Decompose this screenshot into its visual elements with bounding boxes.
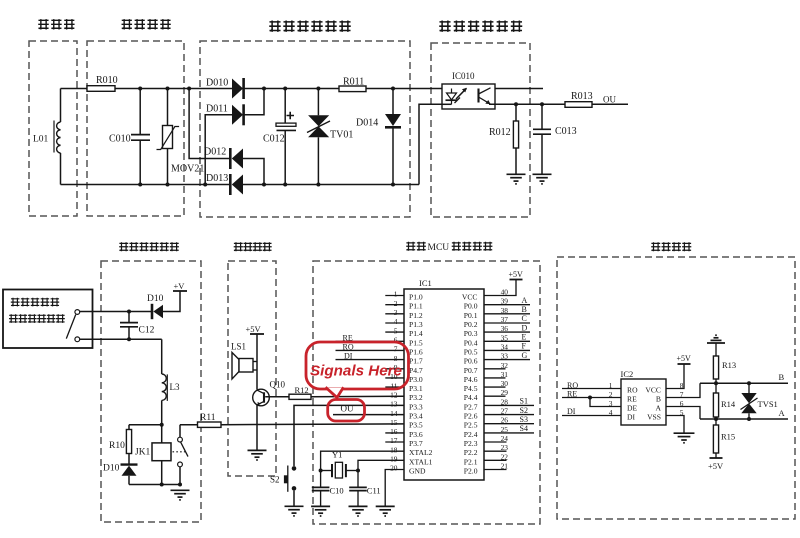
svg-text:P0.1: P0.1 xyxy=(464,311,478,320)
title 处理电路 (of 核心MCU处理电路) xyxy=(452,242,493,251)
svg-text:P2.2: P2.2 xyxy=(464,448,478,457)
relay switch contact xyxy=(178,437,183,442)
relay coil JK1 xyxy=(152,443,171,461)
svg-text:D10: D10 xyxy=(103,464,120,474)
IC1 port letter labels A-G xyxy=(520,296,528,433)
wire MOV21 lower stem xyxy=(167,149,169,185)
svg-text:MOV21: MOV21 xyxy=(171,164,204,175)
IC2 pin name labels xyxy=(627,386,662,422)
IC1 right pin wires xyxy=(484,305,534,470)
wire C010 upper stem xyxy=(139,89,141,135)
wire C11 upper stem xyxy=(357,471,359,488)
TVS1 diagonal tails xyxy=(741,398,758,410)
wire sensor left vertical (lower) xyxy=(60,153,62,185)
svg-text:R15: R15 xyxy=(721,432,735,442)
svg-text:VCC: VCC xyxy=(645,386,661,395)
diode D013 xyxy=(232,175,243,195)
svg-text:Y1: Y1 xyxy=(332,450,342,460)
svg-text:5: 5 xyxy=(394,326,398,335)
svg-text:IC1: IC1 xyxy=(419,278,432,288)
wire ground to R13 xyxy=(715,343,717,356)
svg-text:P0.0: P0.0 xyxy=(464,302,478,311)
optocoupler IC010 body xyxy=(442,84,495,109)
svg-text:+5V: +5V xyxy=(509,270,524,279)
svg-text:Q10: Q10 xyxy=(270,380,286,390)
svg-text:22: 22 xyxy=(501,452,509,461)
svg-text:MCU: MCU xyxy=(428,243,450,253)
wire C12 upper stem xyxy=(128,312,130,323)
wire IC2 pin 2 (RE) xyxy=(562,397,621,399)
wire IC1 pin 19 (XTAL1) xyxy=(358,460,404,470)
wire MOV21 upper stem xyxy=(167,89,169,126)
node bottom bus / TV01 xyxy=(316,183,320,187)
resistor R15 xyxy=(713,425,718,453)
wire IC2 pin 4 (DI) xyxy=(562,415,621,417)
title 光耦隔离电路 xyxy=(439,21,522,32)
resistor R011 xyxy=(339,86,366,92)
svg-text:D10: D10 xyxy=(147,294,164,304)
wire IC1 pin 6 (RE) xyxy=(336,340,405,342)
svg-text:23: 23 xyxy=(501,443,509,452)
capacitor C11 bottom plate xyxy=(349,490,367,492)
svg-text:27: 27 xyxy=(501,407,509,416)
node relay junction xyxy=(160,423,164,427)
svg-text:8: 8 xyxy=(394,354,398,363)
svg-text:C013: C013 xyxy=(555,126,577,137)
diode D10 (points left) xyxy=(151,304,154,319)
wire arrester top contact to D10 xyxy=(80,311,152,313)
wire crystal left xyxy=(321,470,332,472)
wire bottom rail xyxy=(129,484,180,486)
wire IC2 pin 1 (RO) xyxy=(562,388,621,390)
wire L3 to junction xyxy=(161,400,163,424)
wire line B xyxy=(700,382,788,384)
node top bus / TV01 xyxy=(316,87,320,91)
svg-text:P1.7: P1.7 xyxy=(409,357,423,366)
wire C013 upper stem xyxy=(541,104,543,129)
svg-text:C10: C10 xyxy=(330,486,344,496)
title 核心 (of 核心MCU处理电路) xyxy=(406,242,426,251)
svg-text:P1.0: P1.0 xyxy=(409,293,423,302)
wire B to TVS1 xyxy=(748,383,750,393)
C012 plus sign xyxy=(287,112,295,120)
wire R14 to A xyxy=(715,417,717,419)
svg-text:35: 35 xyxy=(501,333,509,342)
node top bus / MOV21 xyxy=(166,87,170,91)
node top bus / D012 branch xyxy=(187,87,191,91)
svg-text:S4: S4 xyxy=(520,424,528,433)
svg-text:P3.4: P3.4 xyxy=(409,412,423,421)
wire switch riser to R11 xyxy=(180,424,198,426)
svg-text:C010: C010 xyxy=(109,134,131,145)
svg-text:DI: DI xyxy=(627,413,635,422)
+5V bar (alarm) xyxy=(250,333,264,335)
svg-text:33: 33 xyxy=(501,352,509,361)
wire IC1 pin 14 (OU) xyxy=(333,414,404,416)
wire IC1 pin 8 (DI) xyxy=(336,359,405,361)
svg-text:20: 20 xyxy=(390,464,398,473)
svg-text:P0.5: P0.5 xyxy=(464,347,478,356)
wire TV01 upper stem xyxy=(317,89,319,116)
svg-text:15: 15 xyxy=(390,418,398,427)
svg-text:37: 37 xyxy=(501,315,509,324)
svg-text:P2.7: P2.7 xyxy=(464,402,478,411)
svg-text:R12: R12 xyxy=(295,385,309,395)
text 通信触点端口 xyxy=(9,314,65,323)
svg-text:JK1: JK1 xyxy=(135,448,151,458)
svg-text:R11: R11 xyxy=(200,413,216,423)
wire R15 to +5V xyxy=(715,453,717,458)
wire IC2 pin 3 (DE) xyxy=(590,398,621,407)
svg-text:C012: C012 xyxy=(263,134,285,145)
svg-text:F: F xyxy=(522,342,527,351)
wire R13 to B xyxy=(715,379,717,383)
wire relay contact bottom to ground xyxy=(179,467,181,485)
voltage-limit section box (限压电路) xyxy=(87,41,184,216)
svg-text:29: 29 xyxy=(501,388,509,397)
wire B to R14 xyxy=(715,383,717,393)
ground (C10) xyxy=(311,506,330,516)
svg-text:LS1: LS1 xyxy=(231,342,246,352)
svg-text:7: 7 xyxy=(394,345,398,354)
inductor L3 xyxy=(162,374,167,400)
wire LS1 terminal bottom xyxy=(253,369,257,371)
wire bottom bus riser to optocoupler pin 2 xyxy=(419,104,442,184)
ground (C11) xyxy=(349,506,368,516)
node RE/DE tie xyxy=(588,396,592,400)
svg-text:30: 30 xyxy=(501,379,509,388)
svg-text:P4.7: P4.7 xyxy=(409,366,423,375)
node output / R012 xyxy=(514,102,518,106)
wire line A xyxy=(700,418,788,420)
node bottom bus / C010 xyxy=(138,183,142,187)
wire C10 lower stem xyxy=(320,491,322,506)
pushbutton S2 xyxy=(292,466,297,471)
node C12 bottom xyxy=(127,337,131,341)
svg-text:19: 19 xyxy=(390,455,398,464)
svg-text:XTAL2: XTAL2 xyxy=(409,448,433,457)
svg-text:31: 31 xyxy=(501,370,509,379)
inductor L3 core bar xyxy=(166,374,168,401)
wire IC2 pin 7 to B line xyxy=(666,383,700,397)
wire TVS1 to A xyxy=(748,413,750,419)
resistor R13 xyxy=(713,356,718,379)
wire D014 lower stem xyxy=(392,127,394,184)
node XTAL1 / C11 xyxy=(356,469,360,473)
svg-text:R010: R010 xyxy=(96,75,118,86)
TVS TVS1 xyxy=(741,393,756,403)
ground (C013) xyxy=(533,174,552,184)
wire R11 to IC1 pin 15 xyxy=(221,423,404,426)
svg-text:G: G xyxy=(522,351,528,360)
wire C012 upper stem xyxy=(284,89,286,124)
red annotation box around OU xyxy=(328,400,365,422)
capacitor C10 top plate xyxy=(312,486,330,488)
wire TV01 lower stem xyxy=(317,137,319,184)
arrester port box (避雷器装置/通信触点端口) xyxy=(3,290,93,349)
svg-text:P3.3: P3.3 xyxy=(409,402,423,411)
wire D012 anode to bottom bus xyxy=(243,159,264,185)
wire sensor left vertical (upper) xyxy=(60,89,62,123)
svg-text:28: 28 xyxy=(501,397,509,406)
svg-text:P2.0: P2.0 xyxy=(464,467,478,476)
wire D10 to bottom rail xyxy=(128,476,130,485)
svg-text:P2.3: P2.3 xyxy=(464,439,478,448)
speaker LS1 xyxy=(232,353,239,380)
svg-text:P2.6: P2.6 xyxy=(464,412,478,421)
svg-text:P1.2: P1.2 xyxy=(409,311,423,320)
svg-text:P0.7: P0.7 xyxy=(464,366,478,375)
resistor R10 xyxy=(126,430,131,454)
wire D10 to +V xyxy=(163,291,180,312)
+5V bar (R15) xyxy=(710,457,723,459)
title 限压电路 xyxy=(122,19,171,29)
wire LS1 terminal top xyxy=(253,361,257,363)
MCU IC1 body xyxy=(404,289,484,480)
svg-text:P2.1: P2.1 xyxy=(464,457,478,466)
+V supply bar xyxy=(173,290,187,292)
capacitor C012 bottom plate xyxy=(277,129,297,131)
svg-text:D014: D014 xyxy=(356,118,378,129)
capacitor C010 top plate xyxy=(131,134,150,136)
svg-text:R012: R012 xyxy=(489,127,511,138)
diode D012 xyxy=(232,149,243,169)
wire junction horizontal left xyxy=(129,424,162,426)
wire C10 upper stem xyxy=(320,471,322,488)
svg-text:+5V: +5V xyxy=(677,354,692,363)
diode D010 xyxy=(232,79,243,99)
wire IC2 pin 6 to A line xyxy=(666,407,700,420)
svg-text:4: 4 xyxy=(609,408,613,417)
node A / R14 xyxy=(714,417,718,421)
title 告警电路 xyxy=(234,242,272,251)
wire R10 upper stem xyxy=(128,425,130,430)
svg-text:+5V: +5V xyxy=(708,461,724,471)
resistor R11 xyxy=(198,422,222,427)
node C12 top xyxy=(127,310,131,314)
svg-text:3: 3 xyxy=(394,308,398,317)
svg-text:B: B xyxy=(779,372,785,382)
capacitor C12 top plate xyxy=(120,322,138,324)
svg-text:P1.1: P1.1 xyxy=(409,302,423,311)
svg-text:1: 1 xyxy=(609,381,613,390)
wire top bus xyxy=(61,88,544,90)
red annotation bubble (Signals Here) xyxy=(306,342,409,389)
resistor R012 xyxy=(513,121,518,148)
svg-text:P2.4: P2.4 xyxy=(464,430,478,439)
svg-text:B: B xyxy=(656,395,661,404)
RS-485 transceiver IC2 body xyxy=(621,379,666,425)
ground (S2) xyxy=(285,506,304,516)
wire crystal right xyxy=(346,470,358,472)
ground (relay) xyxy=(171,490,190,500)
node top bus / D011 xyxy=(262,87,266,91)
svg-text:L01: L01 xyxy=(33,135,49,145)
inductor L01 xyxy=(57,122,61,153)
varistor MOV21 body xyxy=(163,126,173,149)
svg-text:2: 2 xyxy=(609,390,613,399)
svg-text:RO: RO xyxy=(343,343,354,352)
wire C012 lower stem xyxy=(284,130,286,184)
wire C013 lower stem xyxy=(541,134,543,174)
svg-text:21: 21 xyxy=(501,462,509,471)
wire C010 lower stem xyxy=(139,140,141,184)
svg-text:DE: DE xyxy=(627,404,637,413)
node A / TVS1 xyxy=(747,417,751,421)
wire R12 to IC1 pin 12 xyxy=(311,395,404,398)
wire IC1 pin 7 (RO) xyxy=(336,349,405,351)
node top bus / C012 xyxy=(283,87,287,91)
svg-text:DI: DI xyxy=(567,407,576,416)
node top bus / D014 xyxy=(391,87,395,91)
surge-handling section box (电涌处理电路) xyxy=(200,41,410,217)
wire R012 lower stem xyxy=(515,148,517,174)
diode D011 xyxy=(232,105,243,125)
svg-text:A: A xyxy=(779,408,786,418)
svg-text:E: E xyxy=(522,333,527,342)
svg-text:4: 4 xyxy=(394,317,398,326)
alarm section box (告警电路) xyxy=(228,261,276,476)
svg-text:P1.5: P1.5 xyxy=(409,338,423,347)
IC2 pin numbers xyxy=(609,381,684,417)
wire C12 lower stem xyxy=(128,327,130,340)
svg-text:RO: RO xyxy=(627,386,638,395)
svg-text:P3.0: P3.0 xyxy=(409,375,423,384)
optocoupler-isolation section box (光耦隔离电路) xyxy=(431,43,530,217)
svg-text:P3.7: P3.7 xyxy=(409,439,423,448)
wire IC1 VCC pin 40 xyxy=(484,280,516,296)
IC1 right pin numbers xyxy=(501,288,509,471)
svg-text:3: 3 xyxy=(609,399,613,408)
svg-text:D010: D010 xyxy=(206,78,228,89)
node bottom rail / relay xyxy=(160,483,164,487)
wire C11 lower stem xyxy=(357,491,359,506)
wire bottom bus (left part) xyxy=(61,184,231,186)
svg-text:36: 36 xyxy=(501,324,509,333)
svg-text:RE: RE xyxy=(567,390,577,399)
remote-transmission section box (远传电路) xyxy=(557,257,795,519)
svg-text:P0.3: P0.3 xyxy=(464,329,478,338)
relay linkage dots xyxy=(173,451,186,453)
node XTAL2 / C10 xyxy=(319,469,323,473)
svg-text:OU: OU xyxy=(603,95,616,105)
svg-text:P0.4: P0.4 xyxy=(464,338,478,347)
svg-text:P3.5: P3.5 xyxy=(409,421,423,430)
svg-text:R011: R011 xyxy=(343,77,364,88)
wire D011 cathode to top bus xyxy=(244,89,264,115)
svg-text:P0.6: P0.6 xyxy=(464,357,478,366)
wire IC1 pin 18 (XTAL2) xyxy=(321,451,404,470)
svg-text:B: B xyxy=(522,305,527,314)
svg-text:IC2: IC2 xyxy=(621,369,634,379)
capacitor C010 bottom plate xyxy=(131,139,150,141)
svg-text:TVS1: TVS1 xyxy=(758,399,778,409)
+5V bar (IC2) xyxy=(678,363,691,365)
svg-text:16: 16 xyxy=(390,427,398,436)
IC010 internal LED xyxy=(446,88,467,105)
wire relay contact top xyxy=(179,425,181,438)
svg-text:A: A xyxy=(522,296,528,305)
wire R10 to D10 xyxy=(128,454,130,465)
svg-text:24: 24 xyxy=(501,434,509,443)
capacitor C012 top plate xyxy=(276,123,296,126)
svg-text:P4.4: P4.4 xyxy=(464,393,478,402)
svg-text:39: 39 xyxy=(501,297,509,306)
+5V bar (IC1) xyxy=(510,279,523,281)
capacitor C013 top plate xyxy=(533,128,551,130)
IC010 internal phototransistor xyxy=(479,88,491,104)
svg-text:2: 2 xyxy=(394,299,398,308)
TVS TV01 xyxy=(308,115,329,126)
svg-text:D012: D012 xyxy=(204,147,226,158)
wire IC1 pin 20 (GND) xyxy=(385,470,404,507)
switch blade xyxy=(66,315,75,339)
text 避雷器装置 xyxy=(11,298,59,307)
capacitor C11 top plate xyxy=(349,486,367,488)
node bottom bus / C012 xyxy=(283,183,287,187)
svg-text:A: A xyxy=(656,404,662,413)
svg-text:26: 26 xyxy=(501,416,509,425)
svg-text:VSS: VSS xyxy=(647,413,661,422)
svg-text:XTAL1: XTAL1 xyxy=(409,457,433,466)
node bottom bus / D014 xyxy=(391,183,395,187)
communication-input section box (通信输入电路) xyxy=(101,261,201,522)
node bottom rail / ground xyxy=(178,483,182,487)
sensor section box (传感器) xyxy=(29,41,77,216)
IC1 left pin stubs xyxy=(385,296,404,443)
svg-text:DI: DI xyxy=(344,352,353,361)
wire output line xyxy=(489,103,628,105)
switch contact (arrester port) xyxy=(75,310,80,315)
svg-text:25: 25 xyxy=(501,425,509,434)
svg-text:VCC: VCC xyxy=(462,293,478,302)
svg-text:13: 13 xyxy=(390,400,398,409)
IC1 pin name labels xyxy=(409,293,478,476)
title 传感器 xyxy=(38,19,74,29)
ground (R012) xyxy=(507,174,526,184)
svg-text:1: 1 xyxy=(394,290,398,299)
ground (Q10) xyxy=(248,450,267,460)
svg-text:12: 12 xyxy=(390,390,398,399)
svg-text:14: 14 xyxy=(390,409,398,418)
TV01 diagonal tails xyxy=(307,121,330,133)
node B / R13 xyxy=(714,381,718,385)
svg-text:P3.2: P3.2 xyxy=(409,393,423,402)
transistor Q10 xyxy=(253,389,270,406)
svg-text:TV01: TV01 xyxy=(330,130,353,141)
diode D014 (points down) xyxy=(385,114,401,126)
wire S2 to ground xyxy=(293,491,295,506)
varistor MOV21 diagonal stroke xyxy=(157,127,180,150)
svg-text:L3: L3 xyxy=(170,382,180,392)
wire relay coil top xyxy=(161,425,163,443)
title 远传电路 xyxy=(651,242,691,251)
inductor L01 core bar xyxy=(53,121,55,153)
svg-text:34: 34 xyxy=(501,342,509,351)
svg-text:P4.5: P4.5 xyxy=(464,384,478,393)
svg-text:OU: OU xyxy=(341,404,354,414)
svg-text:RO: RO xyxy=(567,381,578,390)
svg-text:P0.2: P0.2 xyxy=(464,320,478,329)
wire A to R15 xyxy=(715,419,717,425)
inverted ground (R13 top) xyxy=(707,335,725,343)
wire IC1 pin 13 to S2 xyxy=(294,405,404,466)
node output / C013 xyxy=(540,102,544,106)
svg-text:S2: S2 xyxy=(270,475,280,485)
title 电涌处理电路 xyxy=(269,21,351,32)
svg-text:C: C xyxy=(522,314,527,323)
svg-text:P4.6: P4.6 xyxy=(464,375,478,384)
